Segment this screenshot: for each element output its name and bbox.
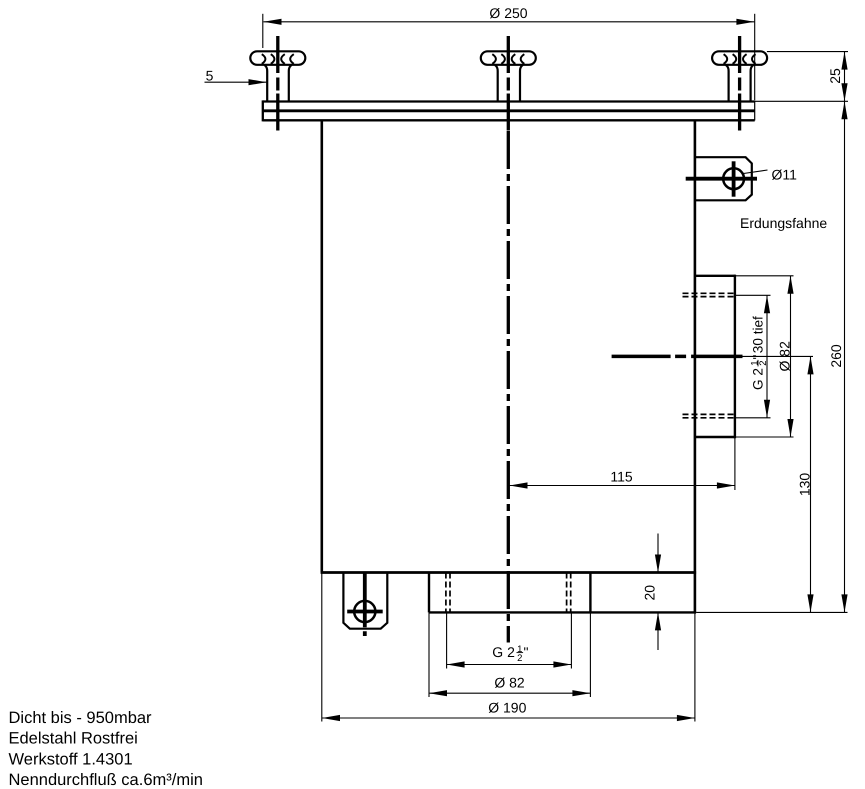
knob left lobes xyxy=(262,54,294,64)
svg-text:130: 130 xyxy=(797,473,813,497)
lug hole circle xyxy=(354,601,375,622)
ext tank wall left down xyxy=(321,573,323,722)
svg-text:20: 20 xyxy=(641,585,657,601)
Ø82 right xyxy=(787,276,793,294)
tank body walls xyxy=(321,120,735,612)
arrowheads xyxy=(249,19,848,721)
svg-text:5: 5 xyxy=(206,68,214,84)
svg-text:30 tief: 30 tief xyxy=(751,316,766,353)
dim line G2.5 bottom xyxy=(447,664,572,666)
svg-text:2: 2 xyxy=(758,360,769,365)
svg-text:G 2: G 2 xyxy=(492,644,515,660)
svg-text:G 2: G 2 xyxy=(751,368,766,390)
hidden thread lines bottom boss xyxy=(445,573,447,613)
G 30 tief xyxy=(764,295,770,313)
ext tank wall right down xyxy=(694,612,696,721)
main vertical centerline xyxy=(507,36,510,131)
bottom-left lug outline xyxy=(343,573,387,629)
ext 115 right (boss edge extended) xyxy=(734,437,736,490)
svg-text:Dicht bis - 950mbar: Dicht bis - 950mbar xyxy=(9,709,153,727)
svg-text:Ø 82: Ø 82 xyxy=(494,674,525,690)
grounding tab hole circle xyxy=(723,168,744,189)
svg-text:Werkstoff 1.4301: Werkstoff 1.4301 xyxy=(9,750,133,768)
Ø250 xyxy=(264,19,282,25)
knob center : head xyxy=(481,51,536,101)
svg-text:260: 260 xyxy=(828,344,844,368)
ext 25 bottom / 260 top (flange top) xyxy=(755,100,848,102)
notes block bottom left xyxy=(9,709,203,789)
svg-text:Nenndurchfluß ca.6m³/min: Nenndurchfluß ca.6m³/min xyxy=(9,771,203,789)
svg-text:Edelstahl Rostfrei: Edelstahl Rostfrei xyxy=(9,730,138,748)
svg-text:": " xyxy=(524,644,529,660)
knob center lobes xyxy=(492,54,524,64)
svg-text:Ø11: Ø11 xyxy=(772,167,798,183)
leader 5 xyxy=(205,81,267,83)
svg-text:Erdungsfahne: Erdungsfahne xyxy=(740,215,827,231)
ext bottom right (boss bottom) xyxy=(696,611,847,613)
right port centerline xyxy=(612,355,743,359)
Ø82 bottom xyxy=(429,690,447,696)
knob axis centerline right xyxy=(738,36,741,131)
extension and dimension thin lines xyxy=(205,14,849,722)
dim text G 2 1/2" bottom xyxy=(492,644,528,664)
knob axis centerline left xyxy=(278,36,743,643)
260 xyxy=(841,101,847,119)
dim line 115 xyxy=(510,485,735,487)
dim text G 2 1/2" 30 tief (rotated) xyxy=(749,316,769,390)
knob right lobes xyxy=(724,54,756,64)
G2.5 bottom xyxy=(447,661,465,667)
svg-text:2: 2 xyxy=(517,653,522,664)
flange plates (lid) xyxy=(263,100,755,121)
ext bottom thread down xyxy=(446,612,448,668)
knob left : head xyxy=(250,51,305,101)
Ø190 xyxy=(322,715,340,721)
ext Ø82 bottom xyxy=(735,436,794,438)
svg-text:Ø 250: Ø 250 xyxy=(489,5,527,21)
dim line 260 xyxy=(844,101,846,612)
25 xyxy=(841,52,847,70)
ext 25 top (knob head top) xyxy=(767,51,848,53)
dim line 25 xyxy=(844,52,846,102)
ext Ø250 right xyxy=(754,14,756,100)
dim line Ø82 bottom xyxy=(429,692,590,694)
dim 20 arrows lines xyxy=(657,534,659,573)
dim line G 30 tief xyxy=(766,295,768,418)
ext port centerline right xyxy=(743,355,814,357)
130 xyxy=(807,356,813,374)
dim line Ø250 xyxy=(264,21,755,23)
flange right edge xyxy=(754,100,756,120)
5 leader xyxy=(249,79,267,85)
ext Ø250 left xyxy=(262,14,264,48)
20 xyxy=(655,555,661,573)
svg-text:Ø 82: Ø 82 xyxy=(776,341,792,372)
svg-text:Ø 190: Ø 190 xyxy=(488,700,526,716)
lug crosshair xyxy=(347,573,383,636)
grounding tab (Erdungsfahne) outline xyxy=(695,157,752,200)
dim line 130 xyxy=(810,356,812,612)
115 xyxy=(510,482,528,488)
svg-text:25: 25 xyxy=(827,68,843,84)
knob right : head xyxy=(712,51,767,101)
leader Ø11 xyxy=(744,170,768,174)
bottom boss outline xyxy=(428,573,430,613)
hidden thread lines right port xyxy=(446,293,735,612)
grounding tab crosshair xyxy=(686,161,757,196)
right port boss outline xyxy=(695,275,735,277)
dim line Ø82 right xyxy=(790,276,792,437)
ext G thread bottom xyxy=(735,417,771,419)
ext bottom boss edges down xyxy=(428,612,430,697)
tank bottom xyxy=(321,571,696,574)
ext G thread top xyxy=(735,294,771,296)
dim line Ø190 xyxy=(322,717,695,719)
svg-text:": " xyxy=(751,355,766,360)
ext Ø82 top xyxy=(735,275,794,277)
svg-text:115: 115 xyxy=(610,469,633,485)
